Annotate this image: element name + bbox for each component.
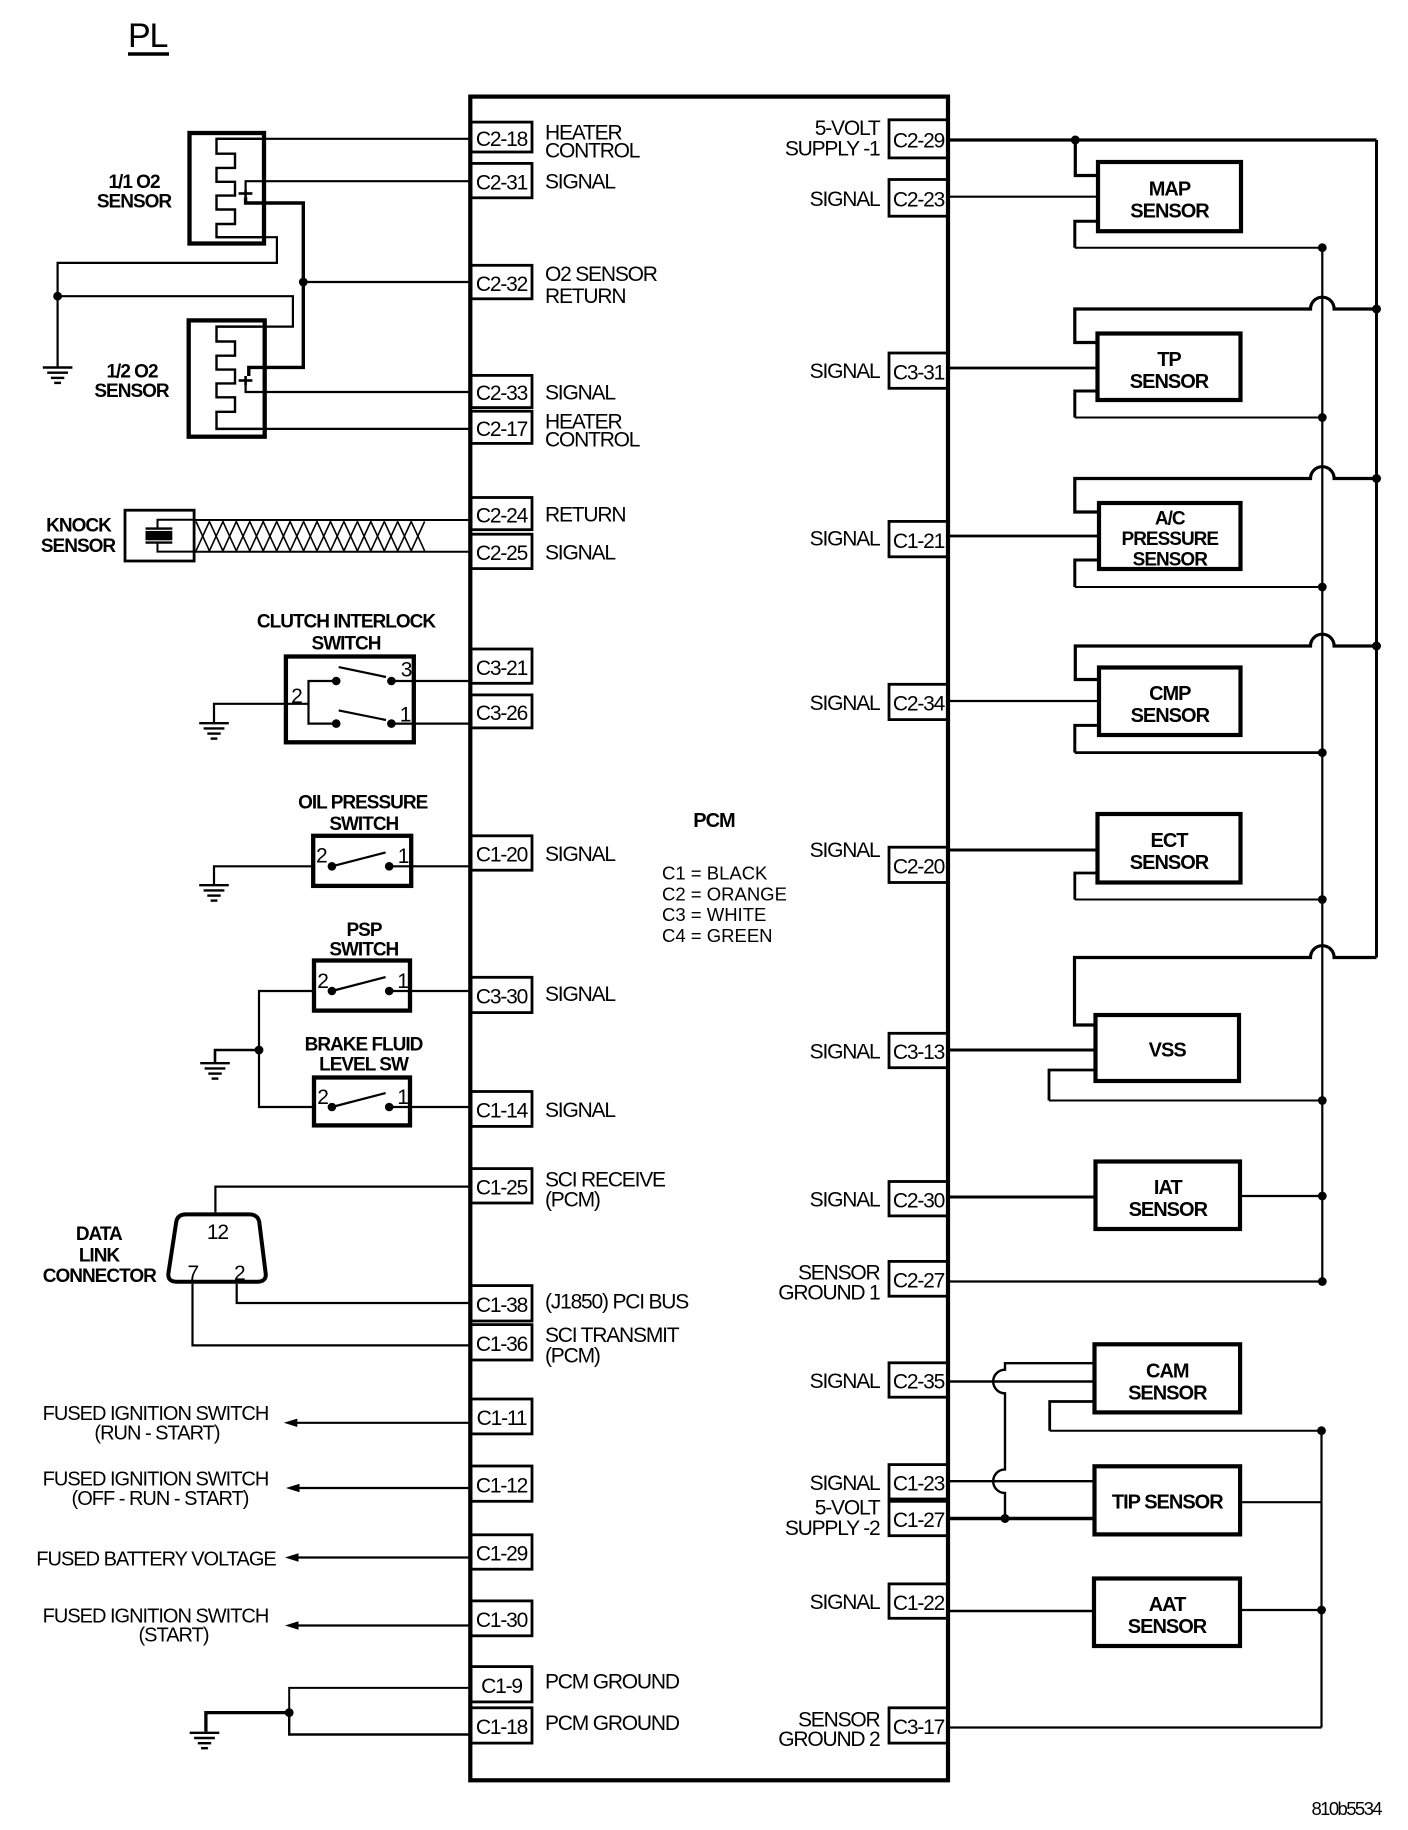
pin box C1-22 (PCM right) [889,1584,948,1618]
IAT sensor box [1096,1162,1241,1230]
pin box C3-13 (PCM right) [889,1033,948,1067]
svg-text:C2-20: C2-20 [893,856,945,879]
wire: C1-27 5-volt supply-2 to TIP sensor [948,1517,1095,1520]
svg-text:SWITCH: SWITCH [329,940,398,961]
svg-text:C1-38: C1-38 [476,1294,528,1317]
wire: 5V branch to CMP sensor (hops ground bus) [1075,634,1376,679]
PSP switch contacts [328,987,394,996]
wire: 1/2 O2 signal to C2-33 [246,386,471,392]
wire: MAP sensor ground to sensor ground bus [1075,221,1323,248]
svg-text:C3 = WHITE: C3 = WHITE [662,904,766,925]
wire: 1/1 O2 heater to C2-18 [217,138,472,140]
svg-text:SENSOR: SENSOR [1130,371,1210,393]
pin box C1-12 (PCM left) [471,1466,532,1501]
pin box C1-18 (PCM left) [471,1708,532,1743]
wire: 5V branch to A/C pressure sensor (hops ground bus) [1075,467,1377,512]
1/2 O2 sensor connector comb [217,327,262,429]
svg-text:C1-21: C1-21 [893,530,945,553]
svg-text:C2-24: C2-24 [476,504,529,527]
junction dot ECT ground on bus [1318,895,1327,904]
junction dot O2 ground [53,292,62,301]
label fused ignition switch (off-run-start) [43,1469,269,1511]
junction dot 5V at CMP branch [1372,642,1381,651]
pin box C3-17 (PCM right) [889,1708,948,1743]
svg-text:C2-29: C2-29 [893,130,945,153]
svg-text:SIGNAL: SIGNAL [810,1370,880,1393]
1/1 O2 sensor label [97,172,173,213]
pin box C2-20 (PCM right) [889,847,948,882]
chassis ground symbol (PSP / brake fluid) [200,1063,230,1078]
wire: CAM 5V bracket down to 5V supply-2 (hops 2 signal wires) [993,1363,1094,1518]
clutch switch pin numbers [291,659,412,727]
wire: 1/1 O2 return down to junction [246,197,304,282]
svg-text:SCI TRANSMIT: SCI TRANSMIT [545,1324,680,1347]
brake fluid switch pin numbers [317,1086,408,1109]
pin box C1-23 (PCM right) [889,1465,948,1499]
svg-text:IAT: IAT [1154,1177,1183,1199]
chassis ground symbol (O2 sensors) [43,368,73,383]
1/2 O2 sensing element (+) [239,376,253,386]
svg-text:5-VOLT: 5-VOLT [815,117,881,140]
svg-text:SENSOR: SENSOR [1131,705,1211,727]
pin box C2-23 (PCM right) [889,180,948,217]
svg-text:C2-18: C2-18 [476,128,528,151]
wire: ECT sensor ground to sensor ground bus [1075,873,1323,900]
oil pressure switch blade [332,852,386,866]
svg-text:(OFF - RUN - START): (OFF - RUN - START) [72,1488,249,1510]
svg-text:C1-25: C1-25 [476,1177,528,1200]
wire: 5V bus end to VSS (hops ground bus) [1075,946,1377,1025]
PCM box [470,97,948,1781]
svg-text:RETURN: RETURN [545,504,625,527]
wire: oil pressure switch pin 1 to C1-20 [389,865,471,867]
svg-text:SIGNAL: SIGNAL [810,360,880,383]
wire: IAT sensor right side to sensor ground bus [1240,1195,1322,1197]
svg-text:SENSOR: SENSOR [1133,550,1209,571]
junction dot AAT ground on bus 2 [1317,1606,1326,1615]
svg-text:(PCM): (PCM) [545,1345,600,1368]
svg-text:BRAKE FLUID: BRAKE FLUID [305,1035,423,1056]
junction dot 5V at TP branch [1372,305,1381,314]
pin box C2-32 (PCM left) [471,265,532,299]
svg-text:C1-14: C1-14 [476,1100,529,1123]
pin function labels (left side) [545,122,689,1735]
svg-text:GROUND 1: GROUND 1 [778,1281,880,1304]
svg-text:C1-9: C1-9 [481,1675,522,1698]
clutch switch blades [339,667,386,720]
wire: brake fluid switch pin 2 up to ground junction [259,1050,314,1107]
wire: CMP sensor ground to sensor ground bus [1075,725,1323,752]
junction dot CAM 5V on supply-2 wire [1001,1514,1010,1523]
knock sensor shielded cable bottom wire to C2-25 [194,551,471,553]
1/1 O2 sensor box [190,133,265,244]
pin box C2-35 (PCM right) [889,1363,948,1397]
svg-text:C1-12: C1-12 [476,1474,528,1497]
brake fluid level switch box [314,1078,410,1126]
svg-text:SENSOR: SENSOR [1128,1382,1208,1404]
svg-text:SIGNAL: SIGNAL [545,983,615,1006]
svg-text:1: 1 [398,845,409,868]
svg-text:DATA: DATA [76,1224,123,1245]
svg-text:C2 = ORANGE: C2 = ORANGE [662,883,787,904]
svg-text:C1-20: C1-20 [476,844,528,867]
svg-text:C1 = BLACK: C1 = BLACK [662,863,768,884]
svg-text:A/C: A/C [1155,509,1186,530]
wire: 5V branch to MAP sensor [1075,140,1098,176]
clutch interlock switch label [257,612,436,655]
svg-text:SIGNAL: SIGNAL [810,1472,880,1495]
wire: ground junction to 1/2 O2 heater loop [58,296,293,326]
junction dot MAP ground on bus [1318,243,1327,252]
svg-text:C2-35: C2-35 [893,1371,945,1394]
AAT sensor box [1094,1579,1240,1647]
svg-text:SENSOR: SENSOR [1130,201,1210,223]
svg-text:(J1850) PCI BUS: (J1850) PCI BUS [545,1291,689,1314]
wire: C3-31 signal to TP sensor [948,367,1098,370]
pin box C3-31 (PCM right) [889,353,948,388]
svg-text:CONNECTOR: CONNECTOR [43,1266,157,1287]
wire: AAT sensor right side to sensor ground 2 bus [1240,1609,1322,1611]
CMP sensor box [1099,668,1241,736]
wire: TIP sensor right side to sensor ground 2 bus [1240,1501,1321,1503]
pin box C1-20 (PCM left) [471,836,532,870]
figure number 810b5534 [1311,1798,1382,1819]
pin box C1-29 (PCM left) [471,1535,532,1569]
svg-text:SIGNAL: SIGNAL [810,188,880,211]
pin box C3-21 (PCM left) [471,649,532,683]
svg-text:VSS: VSS [1149,1039,1187,1061]
svg-text:SUPPLY -1: SUPPLY -1 [785,138,880,161]
pin box C2-34 (PCM right) [889,684,948,719]
svg-text:C1-36: C1-36 [476,1333,528,1356]
knock sensor box [125,510,194,561]
junction dot O2 return [299,278,308,287]
svg-text:(PCM): (PCM) [545,1189,600,1212]
knock sensor piezo element [146,520,194,552]
5V supply bus (vertical) [1375,140,1378,958]
TP sensor box [1098,334,1241,401]
wire: clutch switch pin 3 to C3-21 [391,680,471,682]
svg-text:(RUN - START): (RUN - START) [94,1423,219,1445]
wire: junction to chassis ground [215,1050,259,1063]
chassis ground symbol (PCM grounds) [190,1733,220,1748]
wire: sensor ground bus to C2-27 [948,1280,1322,1282]
svg-text:OIL PRESSURE: OIL PRESSURE [298,793,427,814]
wire: oil pressure switch pin 2 to ground [214,866,313,885]
svg-text:C1-29: C1-29 [476,1543,528,1566]
pin box C1-27 (PCM right) [889,1501,948,1535]
svg-text:C2-31: C2-31 [476,171,528,194]
wire: C2-23 signal to MAP sensor [948,196,1098,198]
wire: PSP switch pin 1 to C3-30 [389,990,471,992]
TIP sensor box [1095,1466,1241,1534]
svg-text:2: 2 [317,970,328,993]
svg-text:PCM GROUND: PCM GROUND [545,1712,680,1735]
svg-text:SIGNAL: SIGNAL [810,839,880,862]
PSP switch blade [332,977,386,991]
A/C pressure sensor box [1099,503,1241,571]
pin box C3-30 (PCM left) [471,977,532,1012]
junction dot 5V at MAP branch [1071,136,1080,145]
wire+arrow: fused battery voltage to C1-29 [285,1553,471,1561]
clutch switch contacts (pins 2,3,1) [332,677,396,728]
svg-text:2: 2 [316,845,327,868]
1/2 O2 sensor box [189,320,265,436]
sensor ground 1 bus (vertical) [1321,248,1323,1282]
svg-text:SIGNAL: SIGNAL [545,171,615,194]
brake fluid switch blade [332,1093,386,1107]
svg-text:SIGNAL: SIGNAL [810,692,880,715]
svg-text:C1-18: C1-18 [476,1716,528,1739]
wire: DLC pin 12 to C1-25 (SCI receive) [215,1187,471,1213]
junction dot VSS ground on bus [1318,1096,1327,1105]
PCM ground junction dot [285,1708,294,1717]
clutch switch common bracket (pin 2) [309,681,337,724]
svg-text:2: 2 [317,1086,328,1109]
PCM connector color legend [662,863,787,946]
svg-text:C2-25: C2-25 [476,542,528,565]
svg-text:LINK: LINK [79,1246,121,1267]
svg-text:SIGNAL: SIGNAL [545,541,615,564]
svg-text:AAT: AAT [1149,1594,1186,1616]
wire: C1-22 signal to AAT sensor [948,1610,1094,1612]
pin box C1-30 (PCM left) [471,1601,532,1636]
svg-text:12: 12 [207,1221,228,1244]
junction dot A/C ground on bus [1318,583,1327,592]
label fused battery voltage [36,1549,276,1571]
svg-text:PL: PL [128,17,167,55]
svg-text:C2-34: C2-34 [893,693,946,716]
wire: C3-13 signal to VSS [948,1049,1096,1052]
svg-text:SENSOR: SENSOR [1130,852,1210,874]
chassis ground symbol (clutch switch) [199,723,229,738]
brake fluid level switch label [305,1035,423,1076]
PSP switch label [329,920,398,961]
wire: C1-9 PCM ground to junction [289,1688,471,1713]
junction dot 5V at A/C branch [1372,474,1381,483]
svg-text:1/1 O2: 1/1 O2 [108,172,159,193]
svg-text:C1-27: C1-27 [893,1509,945,1532]
data link connector label [43,1224,157,1287]
svg-text:SIGNAL: SIGNAL [810,1189,880,1212]
data link connector body (trapezoid) [168,1214,265,1281]
PSP switch pin numbers [317,970,408,993]
wire: PCM ground junction to chassis ground [206,1713,289,1732]
oil pressure switch box [313,836,411,886]
svg-text:C1-23: C1-23 [893,1473,945,1496]
svg-text:SENSOR: SENSOR [97,192,173,213]
svg-text:SWITCH: SWITCH [312,634,381,655]
wire: TP sensor ground to sensor ground bus [1075,391,1323,418]
wire: C2-20 signal to ECT sensor [948,849,1098,852]
MAP sensor box [1098,162,1241,231]
svg-text:2: 2 [234,1262,245,1285]
wire: CAM sensor ground to sensor ground 2 bus [1050,1402,1322,1431]
pin box C2-17 (PCM left) [471,411,532,443]
svg-text:PRESSURE: PRESSURE [1122,529,1219,550]
sensor ground 2 bus (vertical) [1320,1431,1322,1728]
pin box C2-29 (PCM right) [889,120,948,158]
svg-text:SIGNAL: SIGNAL [545,382,615,405]
svg-text:SENSOR: SENSOR [41,536,117,557]
wire: C2-30 signal to IAT sensor [948,1196,1096,1199]
pin box C3-26 (PCM left) [471,695,532,728]
wire: DLC pin 7 to C1-36 (SCI transmit) [193,1284,472,1346]
junction dot at bus end (C2-27) [1318,1277,1327,1286]
svg-text:PCM: PCM [693,810,735,832]
svg-text:KNOCK: KNOCK [46,516,112,537]
svg-text:SENSOR: SENSOR [94,381,170,402]
junction dot CMP ground on bus [1318,748,1327,757]
pin box C2-30 (PCM right) [889,1182,948,1216]
svg-text:SIGNAL: SIGNAL [545,843,615,866]
svg-text:C3-26: C3-26 [476,702,528,725]
svg-text:TP: TP [1157,349,1181,371]
svg-text:C1-30: C1-30 [476,1609,528,1632]
svg-text:CONTROL: CONTROL [545,140,640,163]
wire: clutch switch pin 2 to ground [214,704,309,723]
pin box C1-38 (PCM left) [471,1286,532,1321]
svg-text:SWITCH: SWITCH [329,814,398,835]
svg-text:C1-22: C1-22 [893,1592,945,1615]
pin box C2-33 (PCM left) [471,375,532,407]
knock sensor label [41,516,117,558]
pin function labels (right side) [778,117,881,1751]
knock sensor cable shield crosshatch [196,522,425,551]
wire: O2 return junction down to 1/2 O2 element [249,282,303,376]
1/1 O2 sensing element (+) [239,190,253,197]
pin box C2-18 (PCM left) [471,122,532,152]
svg-text:3: 3 [401,659,412,682]
wire: PSP switch pin 2 down to shared ground junction [259,991,314,1050]
svg-text:O2 SENSOR: O2 SENSOR [545,263,658,286]
pin box C2-24 (PCM left) [471,498,532,530]
data link connector pin numbers [187,1221,245,1285]
svg-text:C3-17: C3-17 [893,1716,945,1739]
pin box C1-11 (PCM left) [471,1399,532,1434]
wire: C2-34 signal to CMP sensor [948,700,1099,702]
svg-text:C2-17: C2-17 [476,418,528,441]
pin box C1-21 (PCM right) [889,521,948,556]
svg-text:C2-32: C2-32 [476,273,528,296]
svg-text:1: 1 [397,970,408,993]
CAM sensor box [1095,1344,1241,1412]
svg-text:CMP: CMP [1149,683,1191,705]
oil pressure switch pin numbers [316,845,409,868]
chassis ground symbol (oil pressure switch) [199,885,229,900]
brake fluid switch contacts [328,1103,394,1112]
label fused ignition switch (run-start) [43,1403,269,1445]
svg-text:GROUND 2: GROUND 2 [778,1728,880,1751]
svg-text:CAM: CAM [1146,1360,1189,1382]
wire: C1-21 signal to A/C pressure sensor [948,535,1099,538]
wire: C1-18 PCM ground to junction [289,1713,471,1735]
pin box C2-25 (PCM left) [471,534,532,568]
1/1 O2 sensor connector comb [217,139,262,237]
svg-text:C2-23: C2-23 [893,189,945,212]
svg-text:C2-27: C2-27 [893,1270,945,1293]
wire: clutch switch pin 1 to C3-26 [391,722,471,724]
svg-text:C3-30: C3-30 [476,986,528,1009]
svg-text:5-VOLT: 5-VOLT [815,1497,881,1520]
clutch interlock switch box [286,657,414,743]
svg-text:SENSOR: SENSOR [1129,1199,1209,1221]
svg-text:(START): (START) [138,1625,208,1647]
VSS box [1096,1015,1240,1081]
wire: 1/2 O2 heater to C2-17 [217,428,472,430]
svg-text:ECT: ECT [1151,830,1189,852]
wire+arrow: fused ignition switch (start) to C1-30 [285,1621,471,1629]
svg-text:PSP: PSP [346,920,382,941]
svg-text:TIP SENSOR: TIP SENSOR [1112,1492,1224,1514]
svg-text:SENSOR: SENSOR [1128,1616,1208,1638]
wire: sensor ground 2 bus to C3-17 [948,1726,1322,1728]
oil pressure switch label [298,793,427,836]
wire: 5V branch to TP sensor (hops ground bus) [1075,297,1377,342]
ECT sensor box [1098,814,1241,883]
oil pressure switch contacts [328,862,394,871]
svg-text:1/2 O2: 1/2 O2 [106,362,157,383]
wire: DLC pin 2 to C1-38 (PCI bus) [237,1284,471,1303]
svg-text:FUSED BATTERY VOLTAGE: FUSED BATTERY VOLTAGE [36,1549,276,1571]
svg-text:C2-33: C2-33 [476,382,528,405]
shared ground junction dot [255,1046,264,1055]
wire: A/C pressure sensor ground to sensor ground bus [1075,560,1323,587]
svg-text:C3-21: C3-21 [476,657,528,680]
wire: 1/1 O2 signal to C2-31 [246,181,471,190]
pin box C1-9 (PCM left) [471,1667,532,1702]
svg-text:SUPPLY -2: SUPPLY -2 [785,1517,880,1540]
pin box C1-36 (PCM left) [471,1325,532,1360]
1/2 O2 sensor label [94,362,170,403]
wire: C1-23 signal to TIP sensor [948,1480,1095,1482]
junction dot TP ground on bus [1318,413,1327,422]
svg-text:CONTROL: CONTROL [545,428,640,451]
svg-text:7: 7 [187,1262,198,1285]
pin box C2-31 (PCM left) [471,163,532,197]
svg-text:LEVEL SW: LEVEL SW [319,1055,409,1076]
label fused ignition switch (start) [43,1606,269,1647]
wire: C2-29 5-volt supply-1 to 5V bus [948,138,1377,141]
svg-text:SIGNAL: SIGNAL [545,1099,615,1122]
wire: C2-35 signal to CAM sensor [948,1380,1095,1382]
wire: 1/1 O2 ground loop to chassis ground [58,237,277,367]
PCM label [693,810,735,832]
knock sensor shielded cable top wire to C2-24 [194,519,471,521]
svg-text:810b5534: 810b5534 [1311,1798,1382,1819]
junction dot IAT ground on bus [1318,1192,1327,1201]
svg-text:SIGNAL: SIGNAL [810,1041,880,1064]
wire+arrow: fused ignition switch (run-start) to C1-11 [284,1419,471,1427]
svg-text:SIGNAL: SIGNAL [810,528,880,551]
svg-text:C3-31: C3-31 [893,361,945,384]
svg-text:C4 = GREEN: C4 = GREEN [662,925,773,946]
svg-text:PCM GROUND: PCM GROUND [545,1671,680,1694]
wire+arrow: fused ignition switch (off-run-start) to C1-12 [286,1484,471,1492]
wire: junction to C2-32 (O2 sensor return) [303,281,471,283]
svg-text:MAP: MAP [1149,179,1191,201]
pin box C1-25 (PCM left) [471,1169,532,1203]
title PL [128,17,169,55]
svg-text:CLUTCH INTERLOCK: CLUTCH INTERLOCK [257,612,436,633]
svg-text:C3-13: C3-13 [893,1041,945,1064]
svg-text:RETURN: RETURN [545,285,625,308]
PSP switch box [314,961,410,1011]
pin box C1-14 (PCM left) [471,1092,532,1127]
wire: VSS ground to sensor ground bus [1049,1070,1322,1101]
svg-text:C2-30: C2-30 [893,1189,945,1212]
junction dot CAM ground on bus 2 [1317,1426,1326,1435]
